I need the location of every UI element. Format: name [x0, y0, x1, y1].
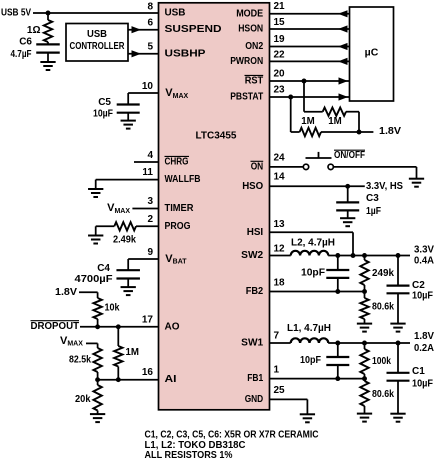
svg-text:2.49k: 2.49k [113, 235, 136, 246]
svg-text:HSON: HSON [238, 24, 263, 35]
svg-text:CHRG: CHRG [165, 157, 189, 168]
svg-text:3: 3 [147, 196, 153, 207]
svg-text:USBHP: USBHP [165, 48, 206, 59]
svg-text:4.7µF: 4.7µF [11, 49, 32, 60]
svg-text:4: 4 [147, 150, 153, 161]
svg-text:C5: C5 [98, 97, 111, 108]
svg-text:16: 16 [142, 367, 154, 378]
svg-text:ON2: ON2 [245, 41, 263, 52]
svg-text:8: 8 [147, 2, 153, 13]
svg-text:80.6k: 80.6k [372, 389, 394, 400]
svg-text:TIMER: TIMER [165, 203, 195, 214]
svg-text:MODE: MODE [236, 8, 263, 19]
svg-text:C6: C6 [19, 37, 32, 48]
svg-text:10pF: 10pF [300, 355, 321, 366]
svg-text:USB: USB [87, 29, 107, 40]
svg-text:20: 20 [274, 69, 286, 80]
svg-text:17: 17 [142, 315, 154, 326]
svg-text:80.6k: 80.6k [372, 302, 394, 313]
svg-text:15: 15 [274, 17, 286, 28]
svg-text:7: 7 [274, 331, 280, 342]
svg-text:1: 1 [274, 365, 280, 376]
svg-text:82.5k: 82.5k [69, 355, 91, 366]
svg-text:20k: 20k [75, 394, 91, 405]
svg-text:L2, 4.7µH: L2, 4.7µH [291, 238, 335, 249]
svg-text:22: 22 [274, 50, 286, 61]
svg-text:2: 2 [147, 214, 153, 225]
svg-text:10µF: 10µF [412, 379, 433, 390]
svg-text:HSO: HSO [242, 181, 263, 192]
svg-text:SUSPEND: SUSPEND [165, 24, 222, 35]
svg-text:13: 13 [274, 219, 286, 230]
svg-text:1Ω: 1Ω [27, 25, 41, 36]
svg-text:C4: C4 [97, 263, 110, 274]
svg-text:5: 5 [147, 42, 153, 53]
svg-text:19: 19 [274, 34, 286, 45]
svg-text:C2: C2 [412, 280, 425, 291]
svg-text:23: 23 [274, 85, 286, 96]
svg-text:L1, 4.7µH: L1, 4.7µH [287, 323, 331, 334]
svg-text:4700µF: 4700µF [75, 274, 113, 285]
svg-text:ON: ON [251, 161, 264, 172]
svg-text:AI: AI [165, 374, 177, 385]
svg-text:10µF: 10µF [412, 291, 433, 302]
svg-text:C3: C3 [366, 193, 379, 204]
svg-text:USB 5V: USB 5V [1, 8, 31, 19]
svg-text:1.8V: 1.8V [414, 331, 434, 342]
svg-text:1.8V: 1.8V [55, 287, 77, 298]
svg-text:0.4A: 0.4A [414, 256, 434, 267]
svg-text:1M: 1M [126, 347, 140, 358]
svg-text:11: 11 [142, 167, 153, 178]
svg-text:CONTROLLER: CONTROLLER [70, 41, 126, 52]
svg-text:18: 18 [274, 278, 286, 289]
svg-text:ALL RESISTORS 1%: ALL RESISTORS 1% [145, 450, 233, 461]
svg-text:FB2: FB2 [246, 286, 264, 297]
svg-text:DROPOUT: DROPOUT [31, 321, 80, 332]
svg-text:21: 21 [274, 1, 286, 12]
svg-text:RST: RST [245, 76, 264, 87]
svg-text:6: 6 [147, 18, 153, 29]
svg-text:0.2A: 0.2A [414, 343, 434, 354]
svg-text:SW1: SW1 [241, 338, 263, 349]
svg-text:1.8V: 1.8V [379, 126, 401, 137]
svg-text:1µF: 1µF [366, 206, 381, 217]
svg-text:10pF: 10pF [301, 268, 325, 279]
svg-text:SW2: SW2 [241, 250, 263, 261]
svg-text:PBSTAT: PBSTAT [230, 92, 263, 103]
svg-text:LTC3455: LTC3455 [196, 130, 237, 141]
svg-text:25: 25 [274, 385, 286, 396]
svg-text:1M: 1M [301, 116, 315, 127]
svg-text:FB1: FB1 [247, 373, 263, 384]
svg-text:10: 10 [142, 81, 154, 92]
svg-text:10k: 10k [105, 303, 120, 314]
svg-text:ON/OFF: ON/OFF [334, 150, 365, 161]
svg-text:14: 14 [274, 172, 286, 183]
svg-text:AO: AO [165, 321, 180, 332]
svg-text:10µF: 10µF [93, 109, 113, 120]
svg-text:249k: 249k [372, 268, 394, 279]
svg-text:HSI: HSI [247, 227, 264, 238]
svg-text:WALLFB: WALLFB [165, 174, 201, 185]
svg-text:12: 12 [274, 244, 286, 255]
svg-text:USB: USB [165, 8, 186, 19]
svg-text:µC: µC [365, 47, 379, 59]
svg-text:C1: C1 [412, 366, 425, 377]
svg-text:100k: 100k [372, 356, 391, 367]
svg-text:GND: GND [245, 394, 264, 405]
svg-text:C1, C2, C3, C5, C6: X5R OR X7R: C1, C2, C3, C5, C6: X5R OR X7R CERAMIC [145, 429, 319, 440]
svg-text:3.3V, HS: 3.3V, HS [366, 181, 403, 192]
svg-text:24: 24 [274, 152, 286, 163]
svg-text:PWRON: PWRON [230, 56, 263, 67]
svg-text:3.3V: 3.3V [414, 245, 434, 256]
svg-text:9: 9 [147, 247, 153, 258]
svg-text:1M: 1M [328, 116, 342, 127]
svg-text:PROG: PROG [165, 221, 191, 232]
